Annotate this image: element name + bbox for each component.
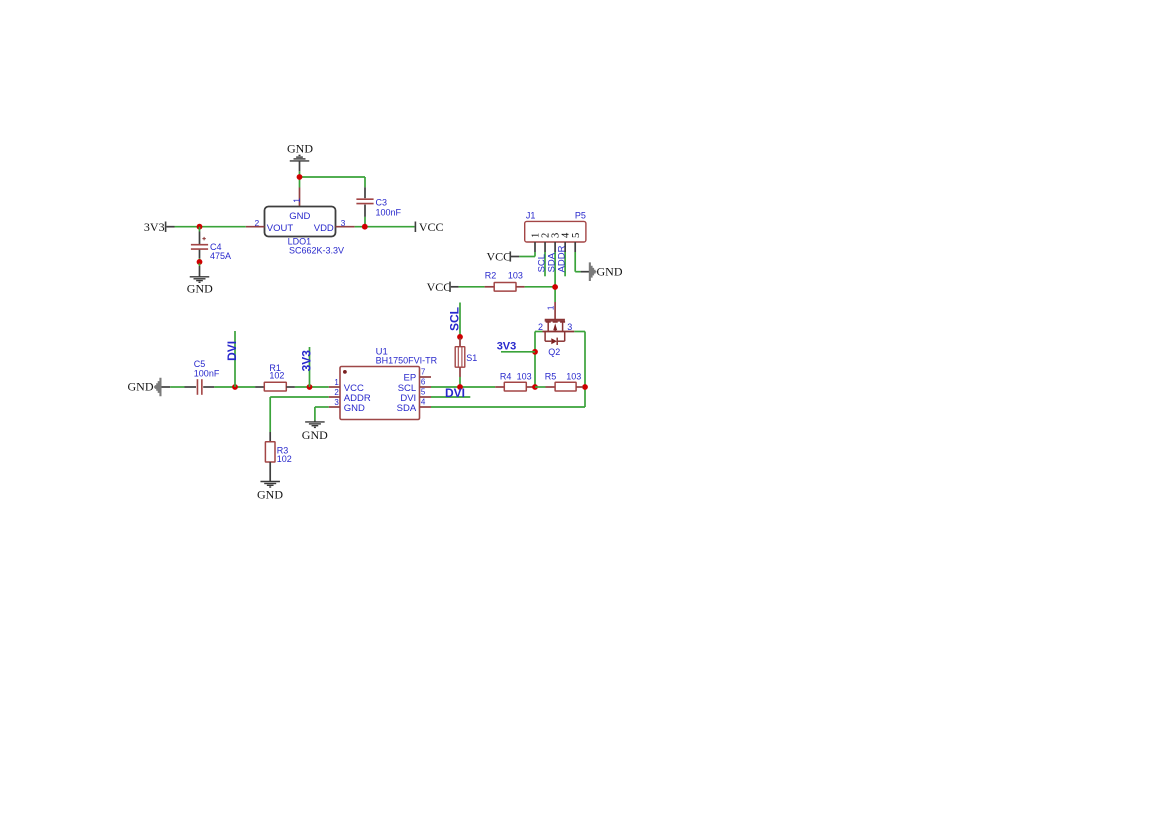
svg-text:Q2: Q2 xyxy=(548,347,560,357)
svg-text:DVI: DVI xyxy=(445,386,465,400)
svg-text:3V3: 3V3 xyxy=(497,340,517,352)
svg-text:GND: GND xyxy=(597,265,623,279)
svg-text:S1: S1 xyxy=(466,353,477,363)
svg-text:2: 2 xyxy=(538,322,543,332)
svg-text:DVI: DVI xyxy=(225,341,239,361)
svg-text:5: 5 xyxy=(421,388,426,397)
svg-text:J1: J1 xyxy=(526,210,536,220)
svg-text:3V3: 3V3 xyxy=(144,220,165,234)
svg-text:SC662K-3.3V: SC662K-3.3V xyxy=(289,246,344,256)
svg-text:102: 102 xyxy=(269,370,284,380)
svg-text:C3: C3 xyxy=(376,198,388,208)
svg-text:7: 7 xyxy=(421,368,426,377)
svg-text:ADDR: ADDR xyxy=(557,245,568,272)
svg-text:BH1750FVI-TR: BH1750FVI-TR xyxy=(376,356,438,366)
svg-text:5: 5 xyxy=(571,233,582,238)
svg-text:475A: 475A xyxy=(210,251,231,261)
svg-text:VCC: VCC xyxy=(427,280,452,294)
svg-text:1: 1 xyxy=(546,305,556,310)
svg-text:GND: GND xyxy=(257,488,283,502)
svg-text:VCC: VCC xyxy=(487,250,512,264)
svg-text:6: 6 xyxy=(421,378,426,387)
svg-text:102: 102 xyxy=(277,454,292,464)
svg-text:100nF: 100nF xyxy=(194,368,220,378)
svg-text:103: 103 xyxy=(517,371,532,381)
svg-text:103: 103 xyxy=(508,271,523,281)
svg-text:1: 1 xyxy=(334,378,339,387)
svg-text:3: 3 xyxy=(334,398,339,407)
svg-text:GND: GND xyxy=(128,379,154,393)
svg-text:SDA: SDA xyxy=(397,403,417,414)
svg-text:R2: R2 xyxy=(485,271,497,281)
svg-text:3: 3 xyxy=(567,322,572,332)
svg-text:GND: GND xyxy=(187,282,213,296)
svg-text:R5: R5 xyxy=(545,371,557,381)
svg-text:VCC: VCC xyxy=(419,220,444,234)
svg-text:3V3: 3V3 xyxy=(300,350,314,372)
svg-text:2: 2 xyxy=(334,388,339,397)
svg-text:R4: R4 xyxy=(500,371,512,381)
svg-text:GND: GND xyxy=(344,403,365,414)
svg-text:VOUT: VOUT xyxy=(267,223,294,234)
svg-text:100nF: 100nF xyxy=(376,207,402,217)
svg-text:103: 103 xyxy=(566,371,581,381)
svg-text:P5: P5 xyxy=(575,210,586,220)
svg-text:GND: GND xyxy=(289,211,310,222)
svg-text:VDD: VDD xyxy=(314,223,334,234)
svg-text:4: 4 xyxy=(421,398,426,407)
svg-text:SCL: SCL xyxy=(447,307,461,331)
svg-text:GND: GND xyxy=(302,428,328,442)
svg-text:GND: GND xyxy=(287,142,313,156)
svg-text:1: 1 xyxy=(292,198,302,203)
